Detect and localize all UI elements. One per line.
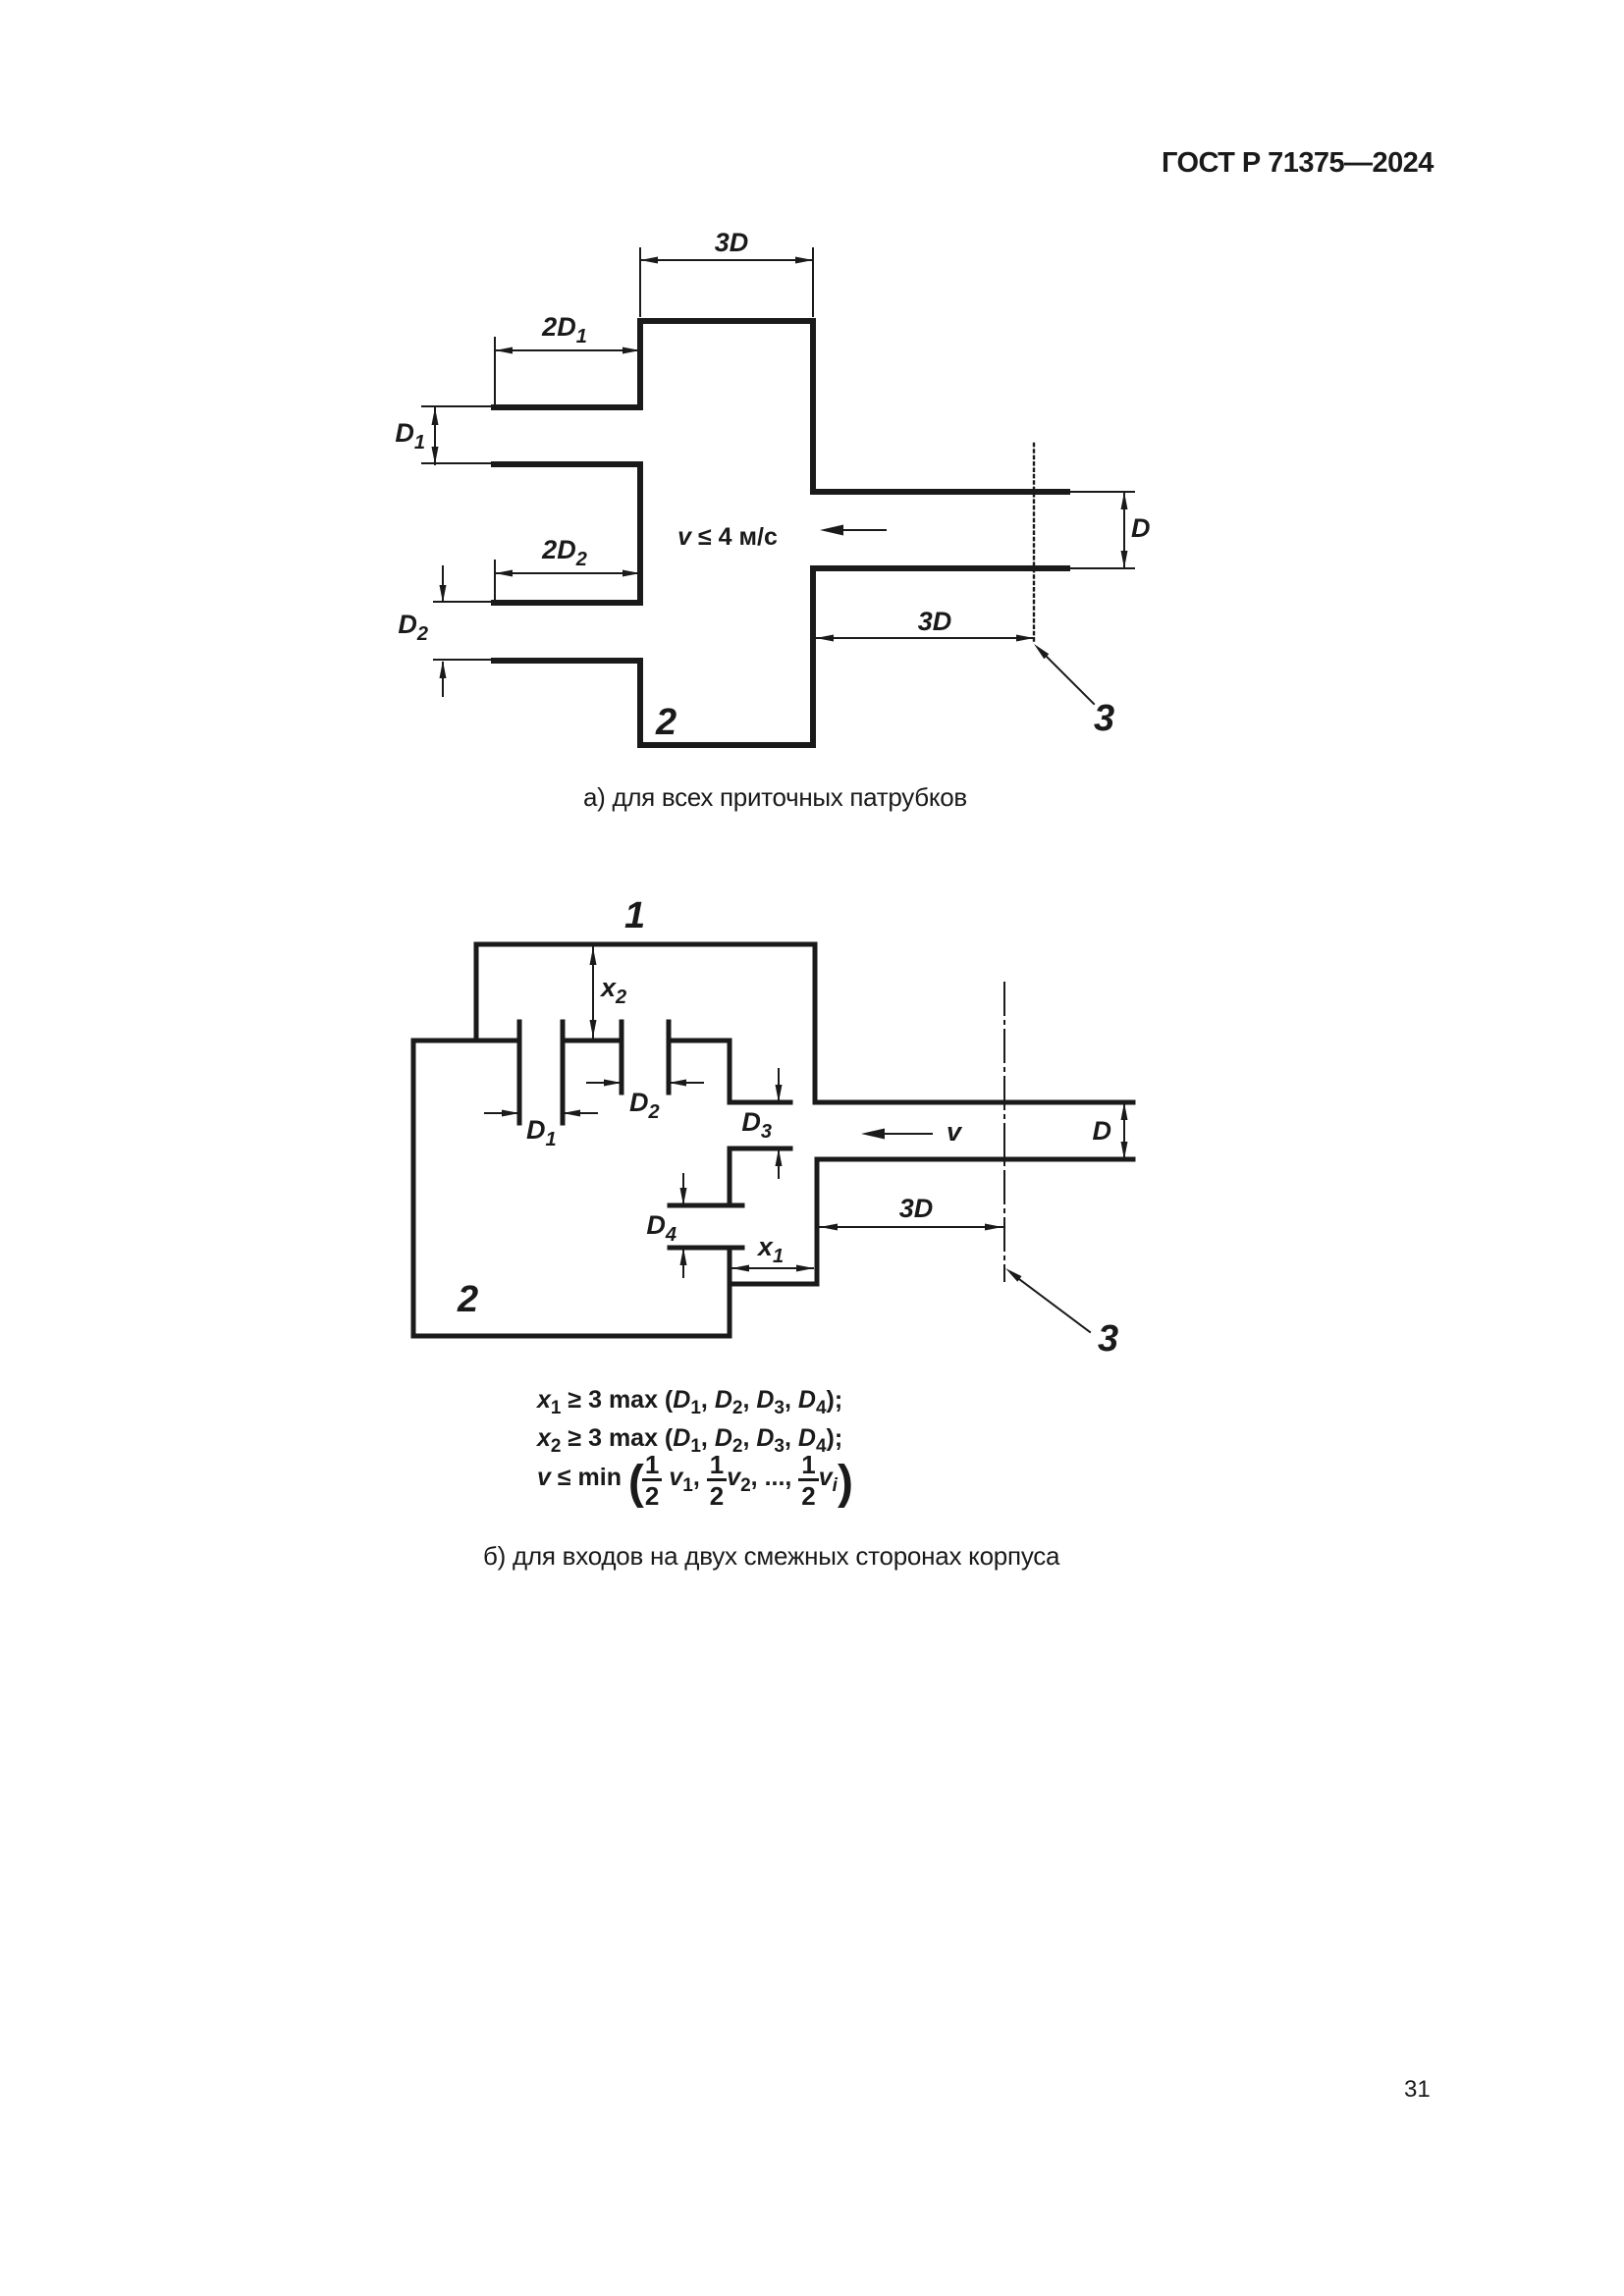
dimension 3D (top of box) <box>640 248 813 316</box>
leader arrow to 3 (diagram b) <box>1005 1268 1090 1332</box>
step x1 outline (diagram b) <box>730 1159 817 1284</box>
duct D2 thin wall extensions <box>434 602 494 660</box>
inlet stub D3 (diagram b) <box>730 1102 790 1148</box>
inlet pipe D4 (diagram b) <box>670 1205 742 1248</box>
housing box 2 outline (diagram b) <box>413 1041 730 1336</box>
dimension 3D (right duct to measurement plane) <box>816 635 1034 642</box>
dimension D1 (diagram b) <box>485 1110 597 1117</box>
svg-text:D2: D2 <box>398 610 428 645</box>
flow arrow v (diagram b) <box>861 1129 932 1140</box>
caption a) <box>583 782 967 813</box>
flow arrow (diagram a) <box>820 525 886 536</box>
leader arrow to 3 (diagram a) <box>1034 644 1094 704</box>
plenum box 2 outline (diagram a) <box>640 321 813 745</box>
formula block <box>537 1381 851 1497</box>
dimension x2 (diagram b) <box>590 947 597 1038</box>
svg-text:2D1: 2D1 <box>541 312 587 347</box>
inlet duct D1 walls (diagram a) <box>494 407 640 464</box>
svg-text:x2: x2 <box>599 973 626 1008</box>
svg-text:v ≤ 4 м/с: v ≤ 4 м/с <box>677 523 778 551</box>
svg-text:D3: D3 <box>741 1107 772 1143</box>
dimension 2D2 <box>495 561 640 600</box>
svg-text:3D: 3D <box>899 1194 934 1223</box>
svg-text:x1: x1 <box>756 1232 784 1267</box>
dimension D (right duct, diagram a) <box>1121 492 1128 568</box>
dimension D1 (vertical double arrow) <box>432 407 439 464</box>
svg-text:3: 3 <box>1098 1318 1118 1360</box>
dimension D (diagram b) <box>1121 1102 1128 1159</box>
svg-text:2: 2 <box>457 1279 478 1320</box>
dimension x1 (diagram b) <box>731 1265 814 1272</box>
header: document code ГОСТ Р 71375—2024 <box>1162 147 1434 180</box>
page number <box>1404 2076 1431 2104</box>
svg-text:D1: D1 <box>395 418 425 454</box>
formula x1 >= 3 max <box>537 1381 851 1419</box>
formula x2 >= 3 max <box>537 1419 851 1458</box>
svg-text:3D: 3D <box>715 228 749 257</box>
dimension D2 (outside arrows) <box>440 566 447 696</box>
inlet pipe D1 (diagram b) <box>519 1022 563 1123</box>
inlet pipe D2 (diagram b) <box>622 1022 669 1093</box>
svg-text:1: 1 <box>624 895 645 936</box>
svg-text:D2: D2 <box>629 1088 660 1123</box>
main duct D thin wall extensions <box>1067 492 1134 568</box>
inlet duct D2 walls (diagram a) <box>494 603 640 661</box>
dimension D3 (diagram b) <box>776 1069 783 1178</box>
dash-dot measurement plane line (diagram b) <box>1003 983 1005 1281</box>
chamber 1 outline (diagram b) <box>476 944 815 1102</box>
main duct D walls (diagram a) <box>813 492 1067 568</box>
svg-text:D1: D1 <box>526 1115 557 1150</box>
dotted measurement plane line (diagram a) <box>1033 444 1035 643</box>
main duct D walls (diagram b) <box>815 1102 1133 1159</box>
svg-text:v: v <box>947 1117 963 1147</box>
dimension 3D (diagram b) <box>820 1224 1002 1231</box>
duct D1 thin wall extensions <box>422 406 494 463</box>
svg-text:D: D <box>1093 1116 1112 1146</box>
caption b) <box>483 1541 1059 1572</box>
svg-text:3: 3 <box>1094 698 1114 739</box>
dimension D2 (diagram b) <box>587 1080 703 1087</box>
formula v <= min <box>537 1458 851 1497</box>
dimension 2D1 <box>495 338 640 404</box>
svg-text:2: 2 <box>655 702 677 743</box>
svg-text:3D: 3D <box>918 607 952 636</box>
svg-text:D4: D4 <box>646 1210 677 1246</box>
svg-text:D: D <box>1131 513 1151 543</box>
svg-text:2D2: 2D2 <box>541 535 587 570</box>
dimension D4 (diagram b) <box>680 1174 687 1277</box>
